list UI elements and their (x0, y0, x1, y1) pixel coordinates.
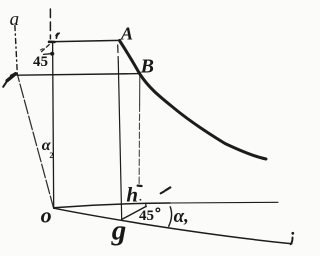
svg-text:2: 2 (49, 150, 53, 160)
svg-text:a: a (10, 9, 20, 30)
svg-text:A: A (120, 24, 133, 44)
svg-text:h: h (126, 182, 138, 206)
svg-text:B: B (140, 56, 154, 78)
svg-text:45: 45 (139, 208, 154, 224)
svg-text:α,: α, (174, 206, 189, 227)
svg-text:45: 45 (33, 54, 48, 70)
svg-text:g: g (111, 215, 127, 247)
svg-text:o: o (41, 203, 52, 228)
